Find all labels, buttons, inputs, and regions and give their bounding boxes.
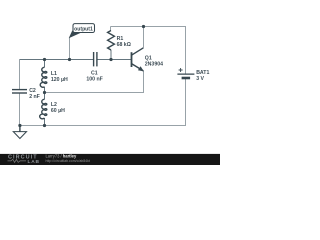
svg-text:3 V: 3 V — [196, 76, 204, 82]
svg-text:LAB: LAB — [28, 159, 40, 165]
svg-text:100 nF: 100 nF — [86, 77, 102, 83]
svg-text:68 kΩ: 68 kΩ — [117, 42, 131, 48]
svg-text:120 µH: 120 µH — [51, 77, 68, 83]
svg-text:http://circuitlab.com/c/ab84kt: http://circuitlab.com/c/ab84kt — [46, 159, 90, 163]
svg-text:Larry73 / hartley: Larry73 / hartley — [46, 154, 77, 159]
svg-text:2 nF: 2 nF — [29, 94, 40, 100]
svg-text:2N3904: 2N3904 — [145, 62, 163, 68]
svg-text:output1: output1 — [74, 27, 93, 33]
svg-text:60 µH: 60 µH — [51, 108, 65, 114]
